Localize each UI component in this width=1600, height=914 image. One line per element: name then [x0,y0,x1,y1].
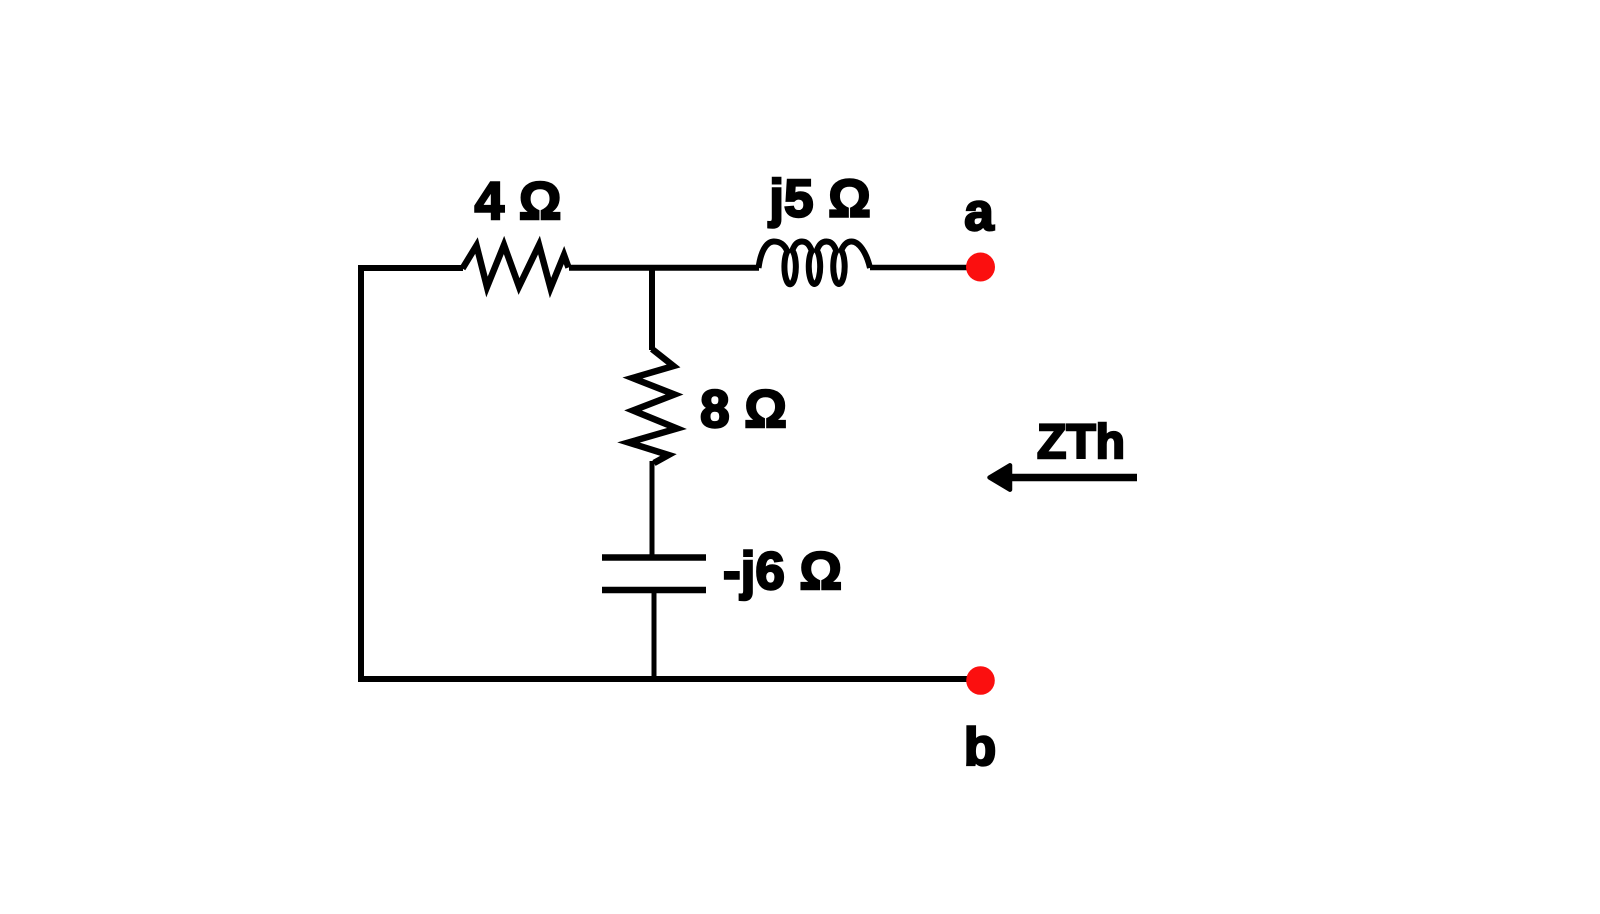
wire: capacitor to bottom rail [652,591,657,679]
capacitor C bottom plate [602,587,706,594]
capacitor C top plate [602,554,706,561]
wire: top-left lead to 4-ohm resistor [358,265,463,271]
svg-text:ZTh: ZTh [1037,416,1125,469]
svg-text:-j6 Ω: -j6 Ω [723,542,842,601]
resistor R 8-ohm vertical zigzag [629,349,678,463]
wire: 8-ohm to capacitor [650,461,655,556]
resistor R 4-ohm zigzag [463,245,569,288]
terminal b red dot [966,666,995,695]
wire: inductor to terminal a [870,265,968,271]
svg-text:a: a [964,183,994,242]
wire: junction down to 8-ohm resistor [649,265,655,350]
ZTh arrow shaft [1008,474,1137,482]
wire: left vertical side [358,265,364,679]
ZTh arrowhead [990,465,1011,489]
svg-text:4 Ω: 4 Ω [475,172,562,231]
wire: 4-ohm to inductor, through top junction node [569,265,759,271]
svg-text:b: b [964,718,996,777]
terminal a red dot [966,253,995,282]
inductor L j5-ohm coil [759,241,871,284]
svg-text:8 Ω: 8 Ω [700,380,787,439]
wire: bottom horizontal [358,676,968,682]
svg-text:j5 Ω: j5 Ω [768,170,870,229]
